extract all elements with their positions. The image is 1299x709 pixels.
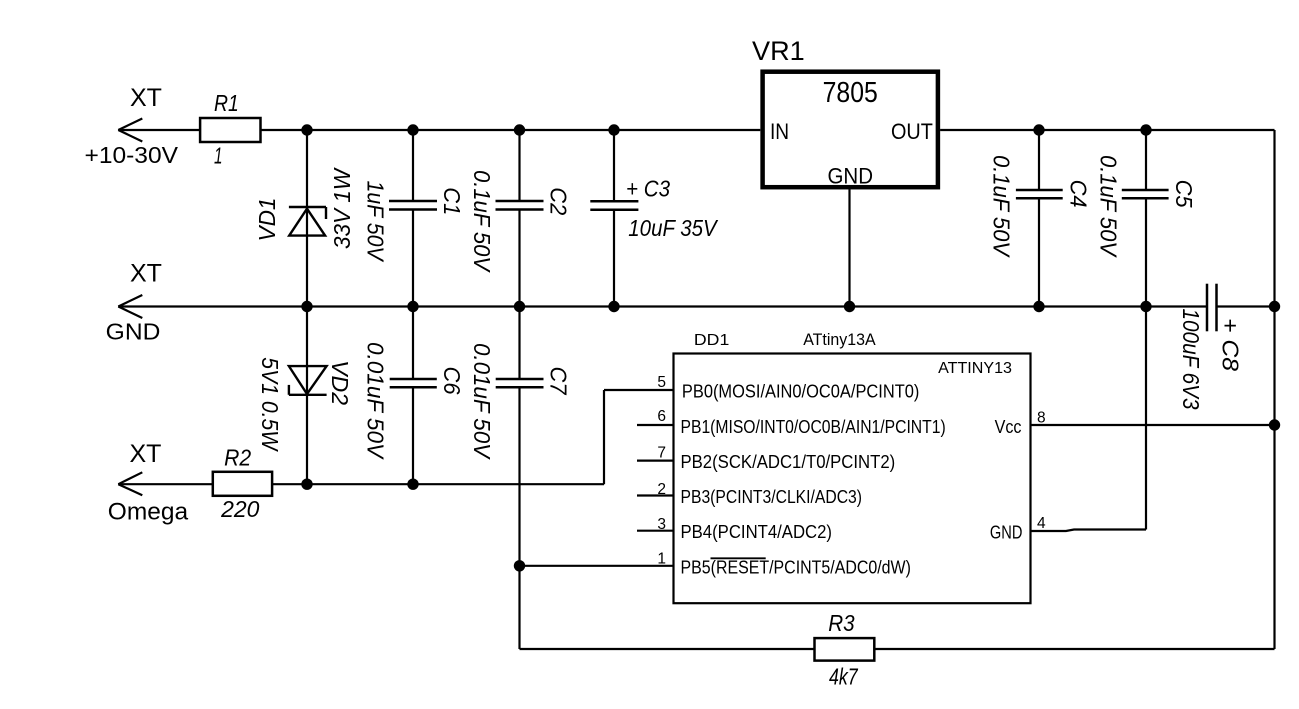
svg-text:0.01uF 50V: 0.01uF 50V	[363, 342, 389, 460]
wire C5 top	[1145, 130, 1147, 190]
wire top rail R1 to VR1	[261, 129, 761, 131]
zener diode VD1	[289, 207, 326, 236]
wire omega rail R2 to riser	[272, 483, 604, 485]
svg-text:R3: R3	[828, 610, 854, 636]
svg-text:100uF 6V3: 100uF 6V3	[1178, 309, 1204, 410]
wire VR1 GND pin down	[848, 189, 850, 306]
IC DD1 ATTINY13 box	[674, 354, 1031, 604]
wire Vcc pin 8 to right rail	[1031, 424, 1275, 426]
resistor R1 body	[200, 118, 260, 142]
wire PB0 pin 5	[604, 389, 674, 391]
pin 7 stub	[637, 460, 674, 462]
svg-text:PB3(PCINT3/CLKI/ADC3): PB3(PCINT3/CLKI/ADC3)	[681, 487, 863, 507]
wire C3 top	[613, 130, 615, 201]
wire gnd rail right of C8	[1217, 305, 1275, 307]
svg-text:4k7: 4k7	[829, 664, 858, 690]
wire C5 bottom	[1145, 198, 1147, 306]
overline RESET	[711, 557, 766, 559]
wire riser to PB0	[603, 390, 605, 484]
resistor R3 body	[815, 638, 875, 661]
svg-text:0.1uF 50V: 0.1uF 50V	[469, 170, 495, 273]
junction gnd rail / VD1-VD2	[301, 301, 312, 312]
capacitor C8 (electrolytic, in gnd rail)	[1207, 284, 1217, 332]
svg-text:DD1: DD1	[694, 332, 730, 349]
junction gnd rail / C1-C6	[407, 301, 418, 312]
svg-text:220: 220	[220, 496, 259, 522]
wire bottom rail R3 to right rail	[874, 648, 1274, 650]
svg-text:OUT: OUT	[891, 119, 933, 144]
svg-text:XT: XT	[130, 260, 162, 288]
wire GND pin 4 to riser	[1031, 530, 1147, 532]
svg-text:PB2(SCK/ADC1/T0/PCINT2): PB2(SCK/ADC1/T0/PCINT2)	[681, 452, 896, 472]
wire C3 bottom	[613, 210, 615, 307]
svg-text:0.1uF 50V: 0.1uF 50V	[1096, 155, 1122, 258]
svg-text:IN: IN	[770, 119, 789, 144]
svg-text:3: 3	[657, 516, 666, 533]
junction top rail / C2	[514, 124, 525, 135]
svg-text:C7: C7	[546, 367, 572, 396]
wire omega rail left of R2	[118, 483, 213, 485]
junction gnd rail / C5-pin4 riser	[1140, 301, 1151, 312]
svg-text:+ C8: + C8	[1218, 318, 1244, 371]
svg-text:7: 7	[657, 445, 666, 462]
svg-text:R1: R1	[214, 90, 239, 116]
junction top rail / C1	[407, 124, 418, 135]
svg-text:1uF 50V: 1uF 50V	[363, 181, 389, 263]
wire C6 top	[412, 307, 414, 380]
svg-text:VR1: VR1	[752, 36, 805, 66]
svg-text:0.01uF 50V: 0.01uF 50V	[469, 343, 495, 460]
wire gnd rail	[118, 305, 1207, 307]
svg-text:PB4(PCINT4/ADC2): PB4(PCINT4/ADC2)	[681, 522, 833, 542]
junction gnd rail / right rail	[1269, 301, 1280, 312]
wire C7 bottom down to bottom rail	[518, 387, 520, 649]
resistor R2 body	[213, 472, 272, 496]
svg-text:8: 8	[1037, 409, 1046, 426]
junction top rail / C3	[608, 124, 619, 135]
junction gnd rail / C3	[608, 301, 619, 312]
wire pin4 riser up to gnd rail	[1145, 307, 1147, 530]
wire VR1 OUT to right rail	[940, 129, 1274, 131]
junction PB5 / C7 branch	[514, 560, 525, 571]
svg-text:7805: 7805	[823, 77, 878, 109]
wire VD2 branch	[306, 307, 308, 485]
svg-text:C2: C2	[546, 187, 572, 215]
wire right vertical rail	[1273, 130, 1275, 649]
svg-text:2: 2	[657, 481, 666, 498]
pin 2 stub	[637, 494, 674, 496]
svg-text:4: 4	[1037, 515, 1046, 532]
wire C7 top	[518, 307, 520, 380]
svg-text:10uF 35V: 10uF 35V	[628, 215, 718, 241]
svg-text:XT: XT	[130, 440, 162, 468]
wire C6 bottom	[412, 387, 414, 484]
svg-text:5: 5	[657, 374, 666, 391]
svg-text:+10-30V: +10-30V	[85, 142, 179, 168]
wire C1 bottom	[412, 210, 414, 307]
wire C4 bottom	[1038, 198, 1040, 306]
connector XT +10-30V	[118, 119, 142, 142]
svg-text:+ C3: + C3	[626, 176, 670, 202]
junction out rail / C4	[1033, 124, 1044, 135]
connector XT GND	[118, 295, 142, 318]
junction VR1 GND / gnd rail	[844, 301, 855, 312]
connector XT Omega	[118, 472, 142, 495]
svg-text:C4: C4	[1065, 180, 1091, 208]
junction top rail / VD1	[301, 124, 312, 135]
junction omega rail / C6	[407, 479, 418, 490]
svg-text:XT: XT	[130, 84, 162, 112]
wire top rail left of R1	[118, 129, 200, 131]
wire bottom rail left of R3	[520, 648, 815, 650]
zener diode VD2	[289, 366, 327, 395]
svg-text:5V1 0.5W: 5V1 0.5W	[257, 357, 283, 453]
svg-text:ATtiny13A: ATtiny13A	[803, 331, 875, 349]
svg-text:1: 1	[214, 142, 223, 168]
svg-text:6: 6	[657, 408, 666, 425]
wire VD1 branch	[306, 130, 308, 307]
regulator U VR1 7805 box	[763, 72, 938, 188]
svg-text:C5: C5	[1171, 180, 1197, 209]
pin 6 stub	[637, 424, 674, 426]
svg-text:Vcc: Vcc	[995, 417, 1022, 437]
wire C4 top	[1038, 130, 1040, 190]
svg-text:PB5(RESET/PCINT5/ADC0/dW): PB5(RESET/PCINT5/ADC0/dW)	[681, 558, 911, 578]
svg-text:0.1uF 50V: 0.1uF 50V	[989, 155, 1015, 258]
junction out rail / C5	[1140, 124, 1151, 135]
svg-text:GND: GND	[990, 522, 1023, 542]
svg-text:Omega: Omega	[108, 499, 189, 526]
pin 3 stub	[637, 530, 674, 532]
junction omega rail / VD2	[301, 479, 312, 490]
svg-text:R2: R2	[224, 444, 251, 470]
svg-text:C6: C6	[439, 367, 465, 396]
svg-text:GND: GND	[106, 318, 161, 344]
svg-text:VD2: VD2	[327, 360, 353, 405]
svg-text:PB1(MISO/INT0/OC0B/AIN1/PCINT1: PB1(MISO/INT0/OC0B/AIN1/PCINT1)	[681, 417, 946, 437]
junction Vcc / right rail	[1269, 419, 1280, 430]
junction gnd rail / C2-C7	[514, 301, 525, 312]
svg-text:33V 1W: 33V 1W	[329, 166, 355, 249]
wire C2 top	[518, 130, 520, 201]
wire C2 bottom	[518, 210, 520, 307]
wire C1 top	[412, 130, 414, 201]
junction gnd rail / C4	[1033, 301, 1044, 312]
svg-text:PB0(MOSI/AIN0/OC0A/PCINT0): PB0(MOSI/AIN0/OC0A/PCINT0)	[682, 381, 920, 401]
wire PB5 to C7 branch	[520, 565, 674, 567]
svg-text:GND: GND	[828, 163, 874, 188]
svg-text:ATTINY13: ATTINY13	[938, 360, 1012, 377]
svg-text:C1: C1	[439, 187, 465, 215]
svg-text:VD1: VD1	[254, 198, 280, 242]
